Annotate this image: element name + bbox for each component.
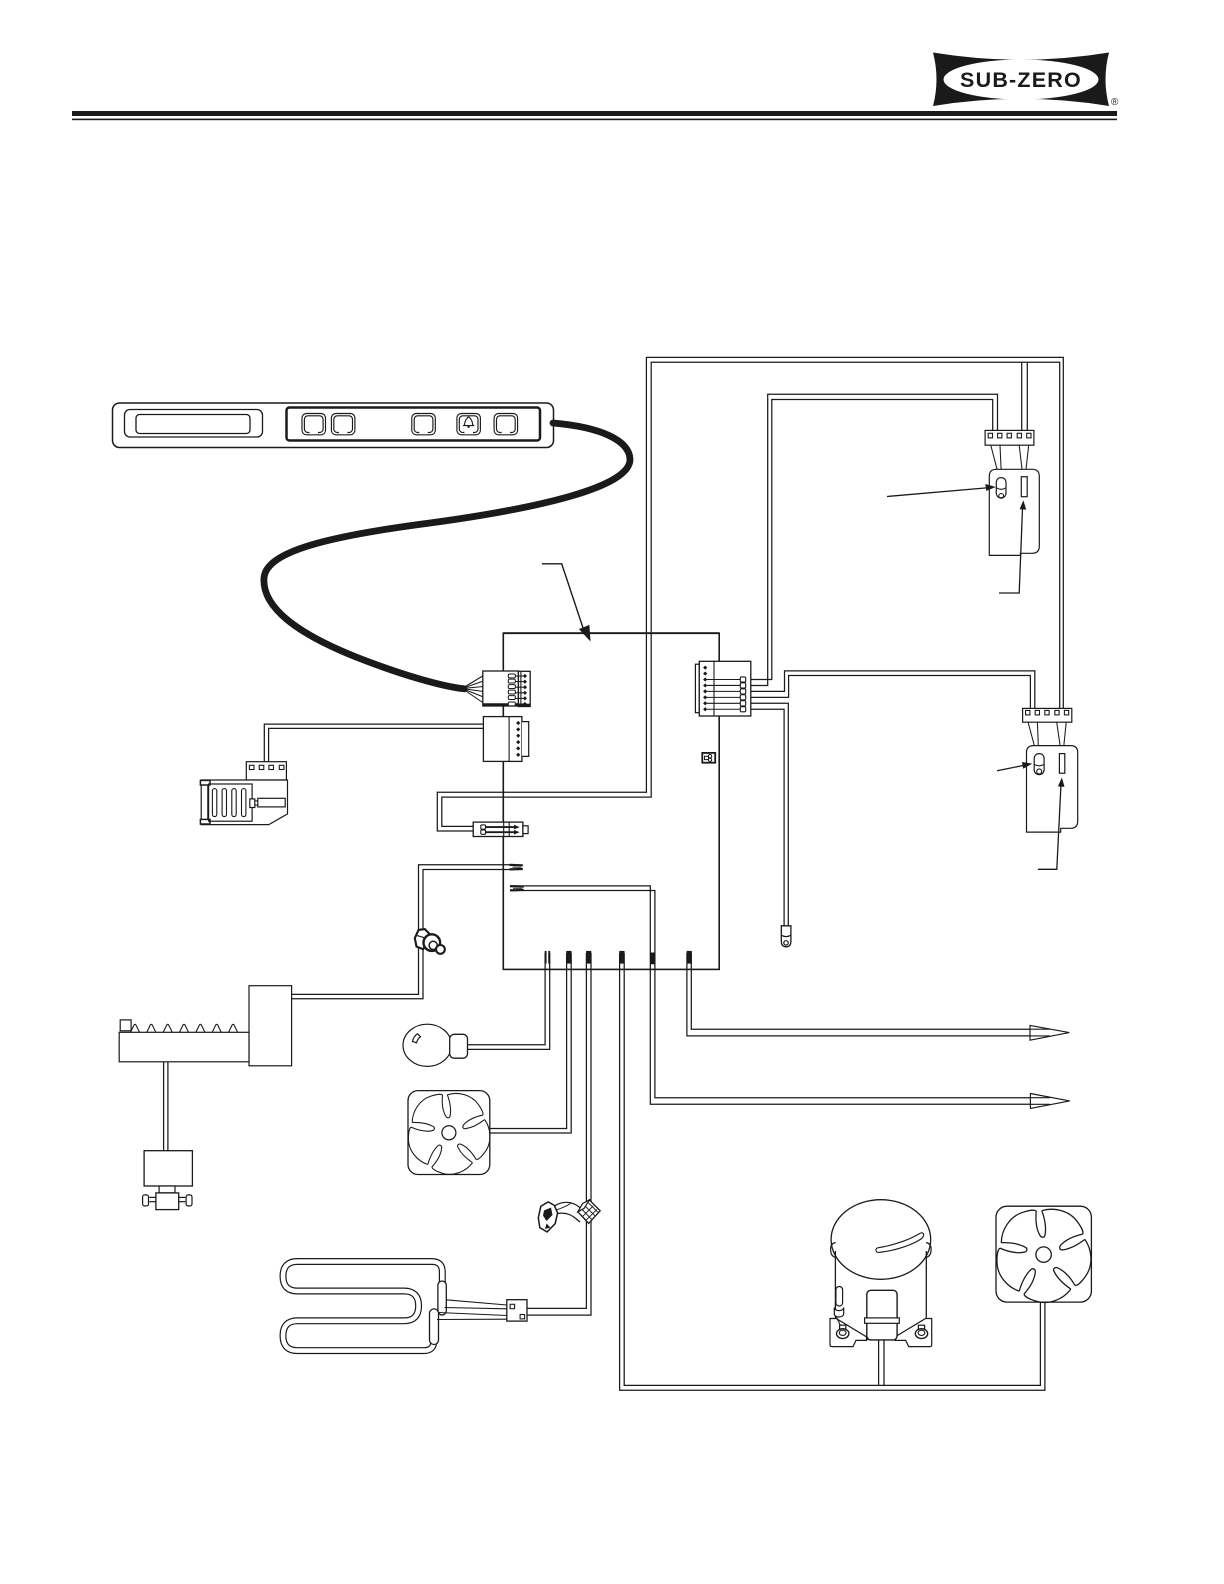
- sensor 1 lead wires: [991, 445, 1029, 477]
- wire: board terminal 2 to evaporator fan (conductor 1): [490, 953, 567, 1129]
- refrigerator thermistor housing: [1027, 746, 1078, 833]
- freezer thermistor housing: [989, 469, 1039, 555]
- wire: board J1B to timer module (conductor 2): [269, 728, 484, 762]
- wire: board terminal 2 to evaporator fan (conductor 2): [490, 953, 572, 1133]
- callout arrow to thermistor 2: [997, 762, 1032, 771]
- wire: compressor tap to bottom run (conductor 2): [883, 1340, 885, 1386]
- wire: board J1B to timer module (conductor 1): [264, 724, 484, 762]
- display ribbon cable (thick): [264, 423, 630, 689]
- spade terminal crimp (switch lead): [510, 865, 523, 870]
- lower harness arrowhead: [1030, 1094, 1069, 1109]
- wire: board J2 pin5 down to insulated terminal: [746, 703, 789, 926]
- sensor connector strip 2: [1023, 708, 1072, 722]
- wire: spade lead through switch to heater box (conductor 2): [291, 870, 509, 999]
- connector J1A (display cable header): [483, 671, 530, 707]
- heater terminal sleeve (upper): [438, 1281, 446, 1315]
- callout arrow to terminal 1: [999, 500, 1026, 593]
- heater terminal sleeve (lower): [430, 1309, 439, 1345]
- wire: tap from top loop down to sensor strip 1 (right): [1026, 362, 1028, 430]
- keypad bezel: [287, 408, 541, 441]
- Sub-Zero logo: [933, 53, 1119, 109]
- board terminal 5 blade: [650, 953, 655, 965]
- callout arrow to terminal 2: [1038, 778, 1065, 870]
- control panel housing: [113, 403, 554, 448]
- wire: board terminal 4 bottom run to condenser fan (conductor 1): [620, 953, 1045, 1390]
- button 3: [412, 414, 436, 435]
- wire: board J2 pin1 to ceiling run to sensor strip 1: [746, 400, 993, 680]
- wire: board J2 pin2 to ceiling run to sensor strip 1: [746, 394, 998, 685]
- wire: tap from top loop down to sensor strip 1 (left): [1021, 362, 1023, 430]
- connector J1B (timer header): [483, 717, 528, 762]
- wire: heater bar to water valve (conductor 1): [163, 1062, 165, 1151]
- defrost thermostat body and twisted leads: [538, 1202, 580, 1232]
- wire: board terminal 3 to defrost heater block (conductor 1): [527, 953, 586, 1308]
- double horizontal rule: [72, 111, 1117, 120]
- upper harness arrowhead: [1030, 1025, 1069, 1040]
- light bulb: [403, 1024, 468, 1066]
- insulated terminal boot: [781, 926, 791, 947]
- inline fuse holder: [473, 822, 528, 836]
- svg-text:®: ®: [1111, 97, 1119, 108]
- wire: spade lead to lower arrow harness (conductor 1): [524, 886, 1051, 1104]
- compressor: [830, 1200, 932, 1347]
- button 1: [302, 414, 326, 435]
- water valve solenoid: [143, 1151, 193, 1210]
- button 4 (alarm bell): [457, 414, 481, 435]
- wire: spade lead to lower arrow harness (conductor 2): [524, 891, 1051, 1098]
- mullion heater control box: [249, 986, 292, 1066]
- push switch: [415, 929, 445, 954]
- evaporator fan: [398, 1088, 497, 1185]
- heater connector block: [507, 1300, 527, 1321]
- wire: board J2 pin3 to sensor strip 2: [746, 671, 1035, 709]
- wire: heater bar to water valve (conductor 2): [167, 1062, 169, 1151]
- wire: board J2 pin4 to sensor strip 2: [746, 676, 1031, 709]
- wire: board terminal 4 bottom run to condenser fan (conductor 2): [624, 953, 1040, 1385]
- spade terminal crimp (arrow lead): [510, 886, 524, 890]
- heater lead wires: [437, 1300, 507, 1320]
- sensor 2 lead wires: [1028, 722, 1066, 753]
- button 5: [494, 414, 517, 435]
- wire: board terminal 6 to upper arrow harness (conductor 2): [691, 953, 1050, 1029]
- board terminal 2 blade: [566, 951, 571, 964]
- mullion heater bar: [119, 1020, 249, 1062]
- main control board outline: [503, 633, 719, 969]
- wire: board J2 pin6 down to insulated terminal: [746, 709, 784, 926]
- condenser fan: [985, 1203, 1099, 1314]
- callout arrow to control board: [542, 564, 591, 642]
- svg-text:SUB-ZERO: SUB-ZERO: [960, 68, 1082, 92]
- board terminal 6 blade: [687, 951, 692, 964]
- relay icon on board: [702, 753, 715, 763]
- board terminal 4 blade: [619, 951, 624, 964]
- defrost heater serpentine element: [283, 1262, 442, 1351]
- defrost thermostat connector cube: [578, 1200, 600, 1224]
- wire: board terminal 3 to defrost heater block (conductor 2): [527, 953, 591, 1315]
- wire: compressor tap to bottom run (conductor 1): [878, 1340, 880, 1386]
- callout arrow to thermistor 1: [887, 484, 996, 497]
- wire: board terminal 6 to upper arrow harness (conductor 1): [687, 953, 1050, 1036]
- wire: spade lead through switch to heater box (conductor 1): [291, 865, 509, 995]
- wire: board terminal 1 to light bulb (conductor 2): [467, 953, 550, 1049]
- defrost timer module: [200, 762, 287, 825]
- sensor connector strip 1: [985, 430, 1034, 445]
- board terminal 3 blade: [586, 951, 591, 964]
- wire: main power loop inner conductor (fuse to top loop to sensor strip 2): [442, 362, 1060, 826]
- cable fan-out wires: [462, 676, 484, 704]
- display window: [125, 410, 263, 438]
- connector J2 (main harness header): [695, 661, 750, 716]
- button 2: [331, 414, 355, 435]
- wire: main power loop outer conductor: [437, 357, 1063, 831]
- wire: board terminal 1 to light bulb (conductor 1): [467, 953, 545, 1045]
- board terminal 1 blade: [546, 951, 550, 964]
